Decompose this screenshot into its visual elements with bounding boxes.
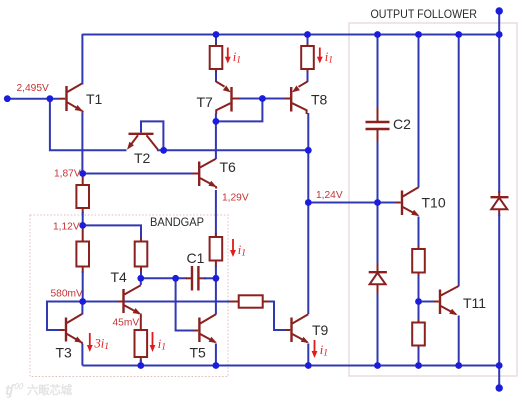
resistor R6 (T7 tail, top) bbox=[215, 41, 217, 46]
svg-text:T7: T7 bbox=[197, 94, 214, 110]
wire 1,12V node across to R3 bbox=[83, 225, 141, 242]
transistor T10 bbox=[395, 187, 419, 216]
current arrow 3i1 bbox=[89, 333, 91, 347]
node gnd D1 bbox=[374, 362, 381, 369]
wire T1 emitter down to 1,87V node bbox=[81, 113, 83, 174]
current arrow i1 at R4 bbox=[152, 332, 154, 347]
wire T10 collector to top rail bbox=[418, 35, 420, 188]
wire C1 right to T6-emitter column bbox=[204, 277, 216, 279]
svg-text:T10: T10 bbox=[422, 195, 446, 211]
wire T7 base to T8 base bbox=[239, 98, 290, 100]
svg-text:T8: T8 bbox=[311, 92, 328, 108]
wire 1,24V node down to T9 collector bbox=[307, 203, 309, 315]
wire R8 to T9 base bbox=[269, 302, 286, 331]
svg-text:T2: T2 bbox=[134, 150, 151, 166]
resistor R5 (T6 emitter load) bbox=[215, 190, 217, 239]
node T1 base bbox=[47, 95, 54, 102]
current arrow i1 at R5 bbox=[232, 239, 234, 252]
wire T10 emitter down to R9 bbox=[418, 217, 420, 252]
resistor R10 (below T11 base) bbox=[418, 318, 420, 323]
wire right rail top segment bbox=[498, 35, 500, 194]
node gnd R4 bbox=[137, 362, 144, 369]
node 1,24V left bbox=[305, 199, 312, 206]
node bottom terminal bbox=[496, 384, 503, 391]
node 1,24V C2 bbox=[374, 199, 381, 206]
wire 580mV rail to right (T4 base, R horizontal) bbox=[83, 301, 232, 303]
wire C2 column down to diode D1 bbox=[377, 203, 379, 267]
transistor T9 bbox=[286, 314, 309, 343]
resistor R3 (1,12V branch to T4 collector) bbox=[140, 238, 142, 242]
wire T4 collector to node bbox=[140, 278, 142, 285]
current arrow i1 at R6 bbox=[227, 48, 229, 58]
svg-text:45mV: 45mV bbox=[113, 318, 140, 329]
wire T9 emitter to ground rail bbox=[307, 344, 309, 366]
transistor T2 (rotated, diode-connected) bbox=[127, 134, 158, 150]
input node wire (2,495V) bbox=[7, 98, 59, 100]
current arrow i1 at T9 emitter bbox=[314, 340, 316, 353]
wire T3 collector up to 580mV bbox=[81, 302, 83, 315]
node 1,12V bbox=[79, 222, 86, 229]
svg-text:580mV: 580mV bbox=[51, 289, 83, 300]
svg-text:T3: T3 bbox=[56, 345, 73, 361]
OUTPUT FOLLOWER box bbox=[349, 23, 517, 376]
resistor R2 (1,12V to 580mV) bbox=[82, 225, 84, 241]
wire right rail bottom segment bbox=[498, 214, 500, 366]
node rail R7 bbox=[304, 31, 311, 38]
svg-text:T5: T5 bbox=[190, 345, 207, 361]
transistor T4 bbox=[117, 285, 141, 314]
transistor T3 bbox=[59, 314, 83, 344]
top supply rail wire bbox=[82, 34, 499, 36]
node T11 base bbox=[415, 298, 422, 305]
resistor R9 (T10 emitter upper) bbox=[412, 249, 425, 273]
watermark bbox=[5, 382, 73, 399]
bottom-right terminal stub wire bbox=[498, 366, 500, 389]
svg-text:1,24V: 1,24V bbox=[316, 190, 343, 201]
wire 1,87V node to T6 base bbox=[82, 173, 192, 175]
node rail right bbox=[496, 31, 503, 38]
svg-text:1,29V: 1,29V bbox=[222, 193, 249, 204]
node T7/T8 base tie bbox=[259, 95, 266, 102]
node rail R6 bbox=[213, 31, 220, 38]
node input terminal bbox=[4, 95, 11, 102]
capacitor C1 bbox=[186, 277, 192, 279]
wire base tie down-left to T7 collector (diode connection) bbox=[216, 99, 263, 122]
capacitor C2 bbox=[377, 35, 379, 111]
svg-text:1,87V: 1,87V bbox=[54, 169, 81, 180]
resistor R1 (1,87V to 1,12V) bbox=[82, 176, 84, 185]
wire T2 base-collector tie loop bbox=[141, 121, 163, 150]
svg-text:BANDGAP: BANDGAP bbox=[150, 215, 204, 229]
wire 1,24V node across to T10 base bbox=[308, 202, 395, 204]
node rail T10 bbox=[415, 31, 422, 38]
diode D1 bbox=[377, 264, 379, 272]
bottom ground rail wire bbox=[82, 365, 499, 367]
resistor R8 (horizontal, T9 base) bbox=[229, 301, 239, 303]
node T7 collector tie bbox=[213, 118, 220, 125]
wire 580mV node to T3 base bbox=[47, 302, 83, 331]
node gnd R10 bbox=[415, 362, 422, 369]
transistor T6 bbox=[193, 159, 217, 189]
node T4 collector bbox=[137, 275, 144, 282]
top output terminal stub wire bbox=[498, 11, 500, 35]
wire input node down to T2 emitter row bbox=[50, 99, 127, 151]
wire T6 collector up to T7 collector bbox=[215, 114, 217, 160]
svg-text:T6: T6 bbox=[220, 159, 237, 175]
node T2 collector bbox=[160, 147, 167, 154]
wire T5 emitter to ground rail bbox=[215, 344, 217, 366]
node rail T11 bbox=[455, 31, 462, 38]
node T8 collector / T2 bbox=[305, 147, 312, 154]
node 580mV bbox=[79, 298, 86, 305]
transistor T5 bbox=[193, 314, 217, 343]
node C1 left bbox=[172, 275, 179, 282]
svg-text:T4: T4 bbox=[111, 269, 128, 285]
wire T11 collector to top rail bbox=[458, 35, 460, 287]
svg-text:2,495V: 2,495V bbox=[17, 83, 49, 94]
wire T8 collector down to 1,24V node bbox=[307, 113, 309, 203]
node gnd T9 bbox=[305, 362, 312, 369]
wire T5 collector up to C1 node bbox=[215, 278, 217, 314]
svg-text:C2: C2 bbox=[393, 116, 411, 132]
svg-text:1,12V: 1,12V bbox=[53, 222, 80, 233]
wire T1 collector to top rail bbox=[81, 34, 83, 85]
current arrow i1 at R7 bbox=[319, 48, 321, 58]
node wire T4 collector row to C1 bbox=[141, 277, 187, 279]
node rail C2 bbox=[374, 31, 381, 38]
node 1,87V bbox=[79, 170, 86, 177]
svg-text:T11: T11 bbox=[463, 295, 486, 311]
wire T2 collector to T8 branch bbox=[157, 149, 308, 151]
node gnd T11 bbox=[455, 362, 462, 369]
node gnd T5 bbox=[213, 362, 220, 369]
wire R9/R10 node to T11 base bbox=[419, 301, 434, 303]
svg-text:六畈芯城: 六畈芯城 bbox=[27, 383, 73, 397]
transistor T1 bbox=[59, 84, 83, 113]
transistor T7 (PNP, faces left) bbox=[216, 82, 239, 115]
BANDGAP dashed box bbox=[30, 215, 228, 377]
resistor R7 (T8 tail, top) bbox=[307, 41, 309, 46]
wire T3 emitter to ground rail bbox=[81, 344, 83, 366]
node C1 right bbox=[213, 275, 220, 282]
transistor T11 bbox=[434, 286, 459, 315]
wire T11 emitter to ground rail bbox=[458, 316, 460, 366]
node top terminal bbox=[496, 7, 503, 14]
svg-text:T1: T1 bbox=[86, 91, 103, 107]
wire C1 node down to T5 base bbox=[176, 278, 193, 330]
T4 emitter lead down to 45mV resistor bbox=[140, 314, 142, 331]
diode D2 bbox=[498, 191, 500, 197]
svg-text:T9: T9 bbox=[312, 322, 329, 338]
svg-text:C1: C1 bbox=[187, 250, 205, 266]
transistor T8 (PNP, faces right) bbox=[285, 82, 308, 115]
svg-text:OUTPUT FOLLOWER: OUTPUT FOLLOWER bbox=[371, 9, 478, 21]
node gnd right bbox=[496, 362, 503, 369]
resistor R4 (45mV, T4 emitter) bbox=[135, 330, 148, 357]
